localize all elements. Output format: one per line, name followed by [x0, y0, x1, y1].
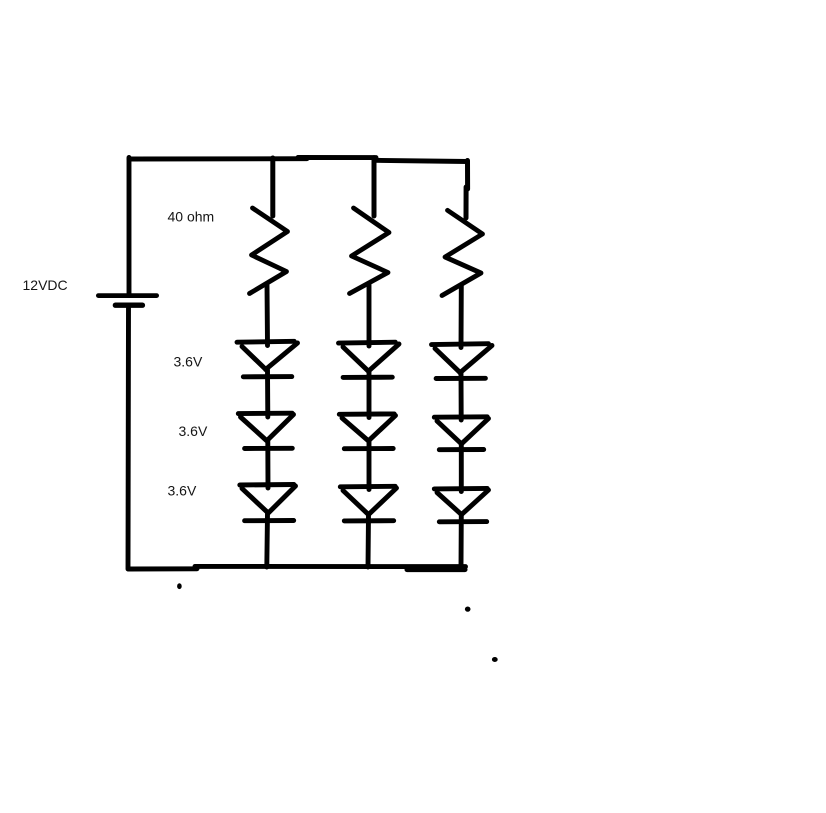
svg-text:40 ohm: 40 ohm: [168, 209, 215, 225]
LED D2 triangle: [241, 415, 294, 441]
LED D9 cathode bar (3.6V): [439, 519, 486, 524]
LED D6 cathode bar (3.6V): [344, 518, 393, 523]
wire D8 to D9: [459, 444, 464, 492]
wire top bus right segment: [374, 160, 468, 161]
LED D7 cathode bar (3.6V): [436, 376, 485, 381]
wire D2 to D3: [265, 441, 270, 488]
wire branch 2 D6 to bottom bus: [366, 515, 371, 567]
wire top bus left segment: [129, 156, 307, 161]
LED D8 triangle: [437, 419, 489, 444]
svg-text:3.6V: 3.6V: [174, 353, 203, 369]
wire branch 1 resistor to D1: [265, 285, 270, 346]
resistor R2 40 ohm: [350, 208, 390, 294]
LED D7 triangle: [435, 346, 492, 373]
wire branch 2 resistor to D4: [367, 285, 372, 346]
LED D2 cathode bar (3.6V): [245, 446, 293, 451]
LED D6 anode bar: [340, 484, 395, 489]
svg-text:3.6V: 3.6V: [168, 483, 197, 499]
LED D2 anode bar: [238, 411, 292, 416]
svg-text:12VDC: 12VDC: [23, 277, 68, 293]
LED D5 triangle: [342, 416, 396, 441]
wire bottom bus right overlap segment: [407, 567, 465, 572]
battery V1 12VDC negative plate: [115, 303, 142, 308]
wire D5 to D6: [367, 441, 372, 490]
stray dot right lower: [492, 657, 498, 662]
wire top bus middle segment: [298, 155, 376, 160]
LED D3 cathode bar (3.6V): [245, 518, 294, 523]
stray dot right upper: [465, 607, 471, 612]
LED D1 triangle: [242, 343, 298, 370]
LED D9 triangle: [437, 490, 489, 515]
wire D7 to D8: [459, 373, 464, 420]
wire D4 to D5: [367, 372, 372, 418]
wire branch 1 top drop: [270, 158, 275, 216]
wire bottom bus left segment: [129, 566, 198, 571]
battery V1 12VDC positive plate: [98, 293, 156, 298]
svg-text:3.6V: 3.6V: [179, 423, 208, 439]
wire branch 2 top drop: [372, 158, 377, 216]
LED D7 anode bar: [432, 341, 489, 347]
LED D4 cathode bar (3.6V): [343, 375, 392, 380]
wire left vertical upper (battery +): [127, 158, 132, 295]
wire branch 3 D9 to bottom bus: [459, 515, 464, 567]
LED D9 anode bar: [434, 486, 487, 491]
LED D3 anode bar: [240, 482, 294, 487]
wire bottom bus middle segment: [195, 564, 466, 569]
wire branch 1 D3 to bottom bus: [264, 513, 270, 567]
wire branch 3 corner drop: [466, 161, 468, 219]
LED D4 anode bar: [339, 340, 396, 346]
LED D3 triangle: [242, 486, 296, 513]
wire D1 to D2: [265, 370, 270, 417]
stray dot near bottom bus: [177, 583, 182, 589]
LED D8 cathode bar (3.6V): [439, 447, 483, 452]
LED D8 anode bar: [434, 414, 487, 419]
LED D4 triangle: [343, 344, 399, 371]
resistor R1 40 ohm: [250, 208, 288, 294]
LED D1 cathode bar (3.6V): [243, 374, 291, 379]
wire left vertical lower (battery -): [126, 307, 131, 569]
resistor R3 40 ohm: [442, 210, 483, 295]
wire branch 3 resistor to D7: [459, 286, 464, 348]
LED D1 anode bar: [237, 339, 294, 345]
LED D5 cathode bar (3.6V): [344, 446, 393, 451]
LED D5 anode bar: [339, 411, 394, 416]
LED D6 triangle: [343, 488, 397, 515]
